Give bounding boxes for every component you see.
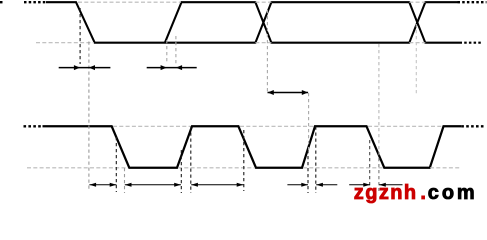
node: cursor gray vertical at x=308.6 upper (308, 93, 310, 150)
node: signal1 high-level reference dashed (78, 1, 425, 3)
wire: signal1 strand A trailing dotted (460, 42, 483, 44)
wire: dimension C5 right shaft (349, 184, 370, 186)
node: cursor dark dashed vertical at x=369.7 (369, 140, 371, 191)
node: dim A1 right-pointing arrowhead (74, 65, 80, 70)
node: cursor dark dashed vertical at x=315.8 (315, 127, 317, 194)
wire: dimension C5 left shaft (316, 184, 337, 186)
node: watermark zgznh (red part) (354, 183, 418, 203)
wire: dimension row A pair 1 shaft (59, 67, 111, 69)
wire: signal2 waveform (43, 126, 462, 168)
wire: signal2 leading dotted segment (24, 125, 44, 127)
node: dim C1 left arrowhead (89, 183, 96, 187)
node: dim C2 left arrowhead (125, 183, 132, 187)
node: cursor gray vertical at x=416.3 (415, 24, 417, 95)
node: cursor gray dashed vertical at x=124.5 (124, 168, 126, 193)
node: cursor gray vertical at x=378.9 tall (378, 44, 380, 152)
node: dim B right arrowhead (302, 90, 308, 95)
node: dim C4 right arrowhead (301, 183, 308, 187)
wire: dimension C6 shaft (379, 184, 402, 186)
node: cursor dark dashed vertical at x=190.8 (190, 127, 192, 194)
node: signal2 low-level reference dashed (27, 167, 461, 169)
wire: signal1 leading dotted segment (24, 1, 47, 3)
wire: dimension row A pair 2 shaft (147, 67, 197, 69)
wire: signal1 strand B (rise branch, high, X-fall, ...) (165, 2, 458, 43)
node: dim C2 right arrowhead (174, 183, 181, 187)
node: watermark red period (420, 183, 426, 203)
node: dim C1 right arrowhead (110, 183, 117, 187)
wire: signal2 trailing dotted (461, 125, 484, 127)
node: cursor gray vertical at x=267.4 (266, 10, 268, 92)
node: cursor gray vertical at x=166.8 (166, 40, 168, 64)
node: dim C5 right arrowhead (363, 183, 370, 187)
wire: dimension row B shaft (268, 92, 309, 94)
node: cursor dark dashed vertical at x=181.3 (180, 150, 182, 193)
wire: dimension C1 shaft (89, 184, 116, 186)
wire: dimension C3 shaft (191, 184, 243, 186)
wire: dimension C4 shaft (287, 184, 308, 186)
node: cursor gray vertical at x=175.9 (175, 36, 177, 64)
wire: signal1 leading stub dash (0, 1, 3, 3)
node: dim A1 left-pointing arrowhead (89, 65, 95, 70)
node: cursor dark dashed vertical at x=308 lower (307, 150, 309, 193)
node: dim C3 right arrowhead (237, 183, 244, 187)
node: watermark com (black part) (428, 183, 478, 203)
node: dim A2 right-pointing arrowhead (161, 65, 167, 70)
node: dim C5 left arrowhead (316, 183, 323, 187)
node: signal2 high-level reference dashed (113, 125, 442, 127)
node: cursor t2 gray dashed vertical at x=88.9 (88, 42, 90, 192)
node: dim B left arrowhead (268, 90, 274, 95)
node: dim C6 left arrowhead (379, 183, 386, 187)
node: signal1 low-level reference dashed (36, 42, 425, 44)
node: cursor dark dashed vertical at x=243.8 (243, 130, 245, 191)
node: dim A2 left-pointing arrowhead (176, 65, 182, 70)
node: dim C3 left arrowhead (191, 183, 198, 187)
wire: signal1 strand B trailing dotted (458, 1, 487, 3)
wire: signal1 strand A (high, fall, low, X-rise, high...) (46, 2, 460, 43)
node: cursor t1 dark dashed vertical at x=80 (79, 8, 81, 64)
node: cursor dark dashed vertical at x=116.3 (115, 137, 117, 192)
wire: dimension C2 shaft (125, 184, 181, 186)
